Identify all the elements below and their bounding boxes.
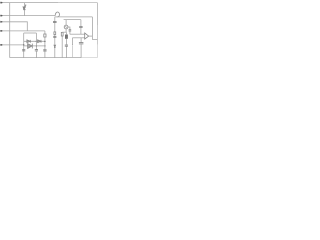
bottom rail right (faint) [81, 57, 97, 59]
terminal dot 2 [1, 15, 3, 17]
capacitor C6 column wires [80, 20, 82, 35]
vertical x36.4 wire [35, 33, 37, 58]
column x66.4 wires [65, 32, 67, 57]
junction dot x36.4 big diode row [36, 45, 37, 46]
faint wire x72.5 to rail [72, 46, 74, 58]
diode D2 [27, 40, 30, 43]
diode row wire [24, 40, 45, 42]
column x23.7 wire [23, 33, 25, 58]
right edge vertical wire [96, 3, 98, 25]
G1 top lead wire [65, 20, 67, 25]
source G1 circle [64, 25, 68, 29]
capacitor C1 [22, 50, 25, 51]
bottom rail [10, 57, 82, 59]
column x44.9 wire [44, 31, 46, 58]
node wire y32.2 [62, 31, 66, 33]
capacitor C6 [79, 26, 82, 27]
junction dot diode row [36, 41, 38, 43]
capacitor C8 [35, 50, 38, 51]
capacitor C5 [69, 30, 72, 31]
resistor R3 [61, 32, 63, 36]
node B wire (line y33) [24, 32, 37, 34]
terminal dot 5 [1, 44, 3, 46]
terminal dot 3 [1, 21, 3, 23]
terminal dot 1 [1, 2, 3, 4]
terminal tick 2 [0, 15, 1, 17]
big diode row wire [24, 45, 45, 47]
op-amp U1 [85, 33, 89, 39]
feedback vertical wire [92, 17, 97, 40]
op-amp output wire [89, 35, 93, 37]
feedback top wire [55, 16, 93, 18]
terminal tick 5 [0, 44, 1, 46]
column x62.2 wire [61, 32, 63, 57]
right edge vertical tail (very faint) [96, 45, 98, 58]
op-amp upper input wire [70, 33, 85, 35]
left bus vertical wire [9, 3, 11, 58]
input line 3 wire [0, 22, 27, 31]
junction dot diode row x44.9 [44, 41, 46, 43]
diode D1 [23, 5, 26, 10]
sine inside G1 [65, 26, 67, 27]
diode D1 branch wire [23, 3, 25, 16]
op-amp lower input wire [73, 37, 85, 39]
resistor R2 [54, 32, 56, 35]
junction dot big diode row x44.9 [44, 45, 46, 47]
right edge vertical lower (faint) [96, 25, 98, 45]
diode D5 [54, 45, 56, 47]
resistor R1 [44, 34, 46, 37]
terminal tick 4 [0, 30, 1, 32]
feedback line 2 wire y19.6 [64, 19, 81, 21]
capacitor C7 column wires [80, 38, 82, 58]
diode D4 (larger) [28, 44, 33, 49]
input line 4 wire [0, 30, 45, 32]
loop L1 pigtail [55, 12, 59, 17]
input line 2 wire [0, 15, 55, 17]
capacitor C5 column wires [68, 27, 70, 34]
top rail [0, 2, 58, 4]
junction dot line5/column [23, 44, 24, 45]
input line 5 wire [0, 44, 24, 46]
terminal tick 1 [0, 2, 1, 4]
capacitor C3 [53, 21, 57, 22]
column x54.8 wire [54, 17, 56, 58]
capacitor C9 [65, 45, 68, 46]
capacitor C2 [43, 50, 46, 51]
G1 bottom lead wire [65, 29, 67, 32]
top rail right (faint) [58, 2, 97, 4]
capacitor C7 [79, 43, 84, 44]
column x72.5 wire [72, 38, 74, 45]
arrow tip x72.5 [72, 44, 73, 45]
diode D3 [38, 40, 41, 43]
terminal tick 3 [0, 21, 1, 23]
terminal dot 4 [1, 30, 3, 32]
capacitor C4 [53, 36, 56, 37]
column x66.4 resistor R4 (dark) [66, 35, 68, 39]
